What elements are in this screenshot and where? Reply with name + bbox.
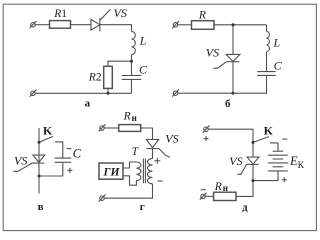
svg-text:R2: R2 bbox=[88, 71, 102, 83]
svg-text:Rн: Rн bbox=[214, 181, 228, 193]
svg-text:C: C bbox=[139, 62, 148, 76]
svg-text:д: д bbox=[242, 203, 248, 214]
svg-text:VS: VS bbox=[14, 153, 27, 167]
svg-text:L: L bbox=[139, 33, 147, 47]
svg-text:ГИ: ГИ bbox=[103, 166, 121, 178]
svg-text:VS: VS bbox=[114, 6, 127, 20]
svg-text:R: R bbox=[198, 9, 206, 21]
svg-text:L: L bbox=[273, 35, 281, 49]
svg-text:VS: VS bbox=[229, 154, 242, 168]
svg-text:R1: R1 bbox=[53, 8, 67, 20]
svg-text:г: г bbox=[140, 201, 145, 213]
svg-text:а: а bbox=[85, 98, 91, 110]
svg-text:VS: VS bbox=[206, 45, 219, 59]
svg-text:б: б bbox=[225, 98, 231, 110]
svg-text:K: K bbox=[264, 123, 274, 137]
svg-text:в: в bbox=[38, 202, 44, 213]
svg-text:C: C bbox=[274, 59, 283, 73]
svg-text:K: K bbox=[43, 124, 53, 138]
svg-text:C: C bbox=[73, 146, 82, 160]
svg-text:VS: VS bbox=[165, 132, 178, 146]
svg-text:Rн: Rн bbox=[123, 111, 137, 123]
